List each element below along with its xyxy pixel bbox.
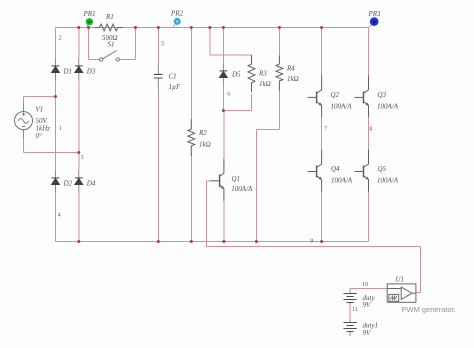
svg-text:7: 7 (324, 126, 327, 133)
probe PR3 (369, 17, 379, 27)
wire top rail node 2/5 (56, 27, 369, 29)
transistor Q2 (308, 75, 322, 117)
svg-text:0°: 0° (36, 132, 43, 140)
transistor Q4 (308, 150, 322, 192)
svg-text:Q1: Q1 (232, 175, 241, 183)
diode D1 (52, 58, 60, 81)
junction R3 top (208, 26, 211, 29)
svg-text:9: 9 (310, 238, 313, 245)
svg-text:4: 4 (58, 212, 62, 219)
svg-text:D5: D5 (231, 71, 241, 79)
svg-text:3: 3 (81, 154, 84, 161)
wire second bridge leg (D3/D4 branch) (78, 28, 80, 242)
transistor Q3 (355, 75, 369, 117)
svg-text:100A/A: 100A/A (377, 177, 399, 185)
junction D5 top (222, 26, 225, 29)
wire C1 branch (157, 28, 159, 242)
svg-text:C1: C1 (169, 73, 177, 81)
wire R3 leads (251, 94, 253, 111)
resistor R2 (188, 119, 195, 156)
junction R2 bottom (190, 240, 193, 243)
svg-text:11: 11 (352, 306, 358, 313)
wire Q3 emitter to Q5 collector node 8 (368, 117, 370, 149)
diode D5 (220, 63, 228, 86)
wire Q1 collector (223, 111, 225, 159)
svg-text:R4: R4 (286, 65, 295, 73)
junction C1 top (157, 26, 160, 29)
svg-text:R3: R3 (258, 70, 267, 78)
svg-text:10: 10 (362, 281, 368, 288)
svg-text:D3: D3 (86, 68, 96, 76)
junction Q2 top (320, 26, 323, 29)
svg-text:V1: V1 (36, 106, 44, 114)
wire Q1 base drop (207, 181, 211, 247)
junction D3 top (77, 26, 80, 29)
wire R1 leads (89, 27, 136, 29)
probe PR1 (86, 18, 93, 27)
svg-text:100A/A: 100A/A (231, 185, 253, 193)
wire R3 top bracket (210, 28, 252, 55)
svg-text:1kΩ: 1kΩ (199, 141, 211, 149)
svg-text:D4: D4 (86, 180, 96, 188)
svg-text:D1: D1 (63, 68, 73, 76)
junction D4 bottom (77, 240, 80, 243)
wire Q5 emitter to rail (368, 192, 370, 242)
wire D5-R3 bottom bar node 6 (223, 110, 251, 112)
junction Q4 emitter bottom (320, 240, 323, 243)
wire V1 top to node (24, 97, 56, 104)
wire bottom rail node 9 (56, 241, 369, 243)
junction R1/S1 left (87, 26, 90, 29)
wire Q2 collector from rail (321, 28, 323, 76)
svg-text:PR1: PR1 (83, 10, 96, 18)
svg-text:PWM generator.: PWM generator. (402, 305, 456, 314)
transistor Q1 (210, 159, 224, 201)
svg-text:1: 1 (59, 125, 62, 132)
svg-text:Q2: Q2 (331, 91, 340, 99)
transistor Q5 (355, 150, 369, 192)
ground stub below V3 (349, 332, 351, 336)
battery V2 duty (344, 289, 357, 306)
svg-text:Q3: Q3 (378, 91, 387, 99)
resistor R1 (95, 24, 123, 31)
svg-text:U1: U1 (396, 276, 405, 284)
wire Q1 emitter to rail (223, 201, 225, 242)
svg-text:100A/A: 100A/A (331, 177, 353, 185)
wire Q3 collector from rail corner (368, 28, 370, 76)
svg-text:100A/A: 100A/A (377, 103, 399, 111)
wire Q2 emitter to Q4 collector node 7 (321, 117, 323, 149)
svg-text:Q4: Q4 (331, 165, 340, 173)
wire V1 bottom to node 3 (24, 138, 79, 153)
wire S1 left branch (89, 28, 100, 60)
svg-text:9V: 9V (363, 301, 372, 309)
junction node 6 bar (222, 109, 225, 112)
wire R2 branch (190, 28, 192, 242)
junction R4 top (278, 26, 281, 29)
svg-text:1µF: 1µF (169, 83, 182, 91)
svg-text:6: 6 (227, 90, 230, 97)
svg-text:2: 2 (59, 35, 62, 42)
wire node 11 between batteries (349, 305, 351, 320)
wire PWM output line (207, 247, 421, 293)
svg-text:Q5: Q5 (378, 165, 387, 173)
diode D4 (75, 170, 83, 193)
svg-text:100A/A: 100A/A (331, 103, 353, 111)
resistor R4 (276, 56, 283, 91)
battery V3 duty1 (344, 320, 357, 337)
svg-text:R1: R1 (105, 13, 114, 21)
svg-text:PR2: PR2 (170, 10, 184, 18)
capacitor C1 (154, 64, 163, 89)
switch S1 (99, 51, 119, 62)
junction V1 plus node (54, 95, 57, 98)
svg-text:D2: D2 (63, 180, 73, 188)
junction R2 top (190, 26, 193, 29)
resistor R3 (248, 55, 255, 92)
wire D5 branch (222, 28, 224, 111)
svg-text:1kΩ: 1kΩ (259, 80, 271, 88)
AC source V1 (15, 103, 33, 138)
junction R4 bottom (255, 240, 258, 243)
junction C1 bottom (157, 240, 160, 243)
svg-text:8: 8 (369, 126, 372, 133)
wire Q4 emitter to rail (321, 192, 323, 242)
diode D3 (75, 58, 83, 81)
junction R1/S1 right (134, 26, 137, 29)
wire S1 right branch (119, 28, 135, 60)
svg-text:1kΩ: 1kΩ (287, 75, 299, 83)
wire left bridge leg (D1/D2 branch) (55, 28, 57, 242)
junction Q1 emitter bottom (222, 240, 225, 243)
PWM generator U1 (387, 284, 416, 302)
svg-text:PR3: PR3 (368, 10, 382, 18)
svg-text:S1: S1 (108, 41, 115, 49)
svg-text:R2: R2 (198, 129, 207, 137)
svg-text:9V: 9V (363, 329, 372, 337)
junction V1 minus node 3 (77, 151, 80, 154)
wire R4 branch (256, 28, 279, 242)
svg-text:5: 5 (161, 40, 164, 47)
diode D2 (52, 170, 60, 193)
probe PR2 (173, 18, 181, 27)
wire node 10 V2 to U1 (350, 288, 387, 290)
